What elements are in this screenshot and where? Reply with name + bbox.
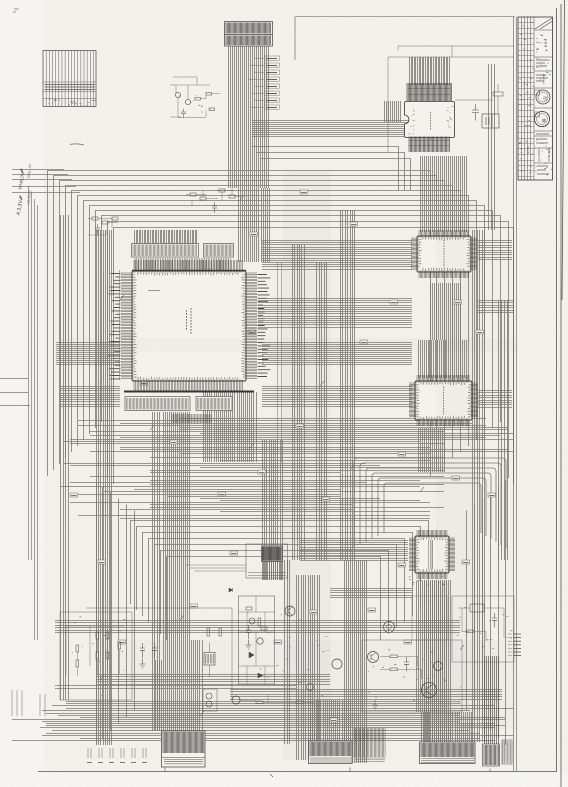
wire bus IC3 left entry: [262, 241, 412, 270]
analog section box 2: [239, 596, 275, 684]
wire bus IC4 bottom fan: [419, 428, 445, 472]
resistor R23: [390, 655, 398, 658]
resistor R27: [296, 701, 303, 704]
resistor R26: [256, 701, 263, 704]
handwritten arrows: [19, 169, 23, 201]
wire power section: [458, 608, 504, 641]
pencil smudge 2: [148, 290, 160, 292]
wire bus IC3 right exit: [478, 241, 512, 260]
resistor R21: [219, 628, 222, 636]
wire bus IC1-to-CN2 trunk: [153, 412, 160, 731]
transistor pair box: [203, 689, 217, 711]
frame right border: [557, 0, 565, 787]
IC2 body: [405, 102, 455, 138]
regulator VR1: [470, 604, 484, 612]
pin table text rows: [45, 85, 96, 90]
wire bus top cross link: [252, 121, 430, 137]
frame bottom border: [38, 771, 556, 773]
resistor R24: [390, 668, 398, 671]
capacitor C22: [492, 613, 497, 627]
CN2 left labels: [88, 748, 91, 758]
wire bus J-bars to IC1 top: [135, 258, 230, 270]
transistor Q2: [185, 99, 190, 104]
capacitor C2: [472, 104, 479, 121]
connector CN1: [225, 22, 273, 47]
audio section box 3: [362, 640, 462, 712]
IC5 small DIP: [246, 544, 288, 578]
wire bus IC3 top: [421, 156, 467, 232]
wire bus bottom band A: [12, 702, 513, 741]
IC6 QFP: [415, 536, 449, 573]
wire bus mid horizontal spread: [60, 419, 513, 519]
ground G3: [372, 700, 378, 709]
analog section box 1: [86, 608, 232, 700]
wire bus IC6 bottom exit: [417, 581, 447, 712]
transistor Q5: [422, 683, 437, 698]
diode D1: [229, 588, 233, 592]
capacitor C1: [181, 109, 186, 118]
wire bus right trunk: [473, 230, 485, 742]
wire bus into CN3: [311, 700, 351, 741]
wire bus IC1 right pin labels: [258, 275, 271, 377]
IC3 QFP: [417, 236, 471, 272]
oscillator X2: [204, 653, 215, 666]
wire bottom center row: [240, 695, 315, 703]
connector bar J4 below IC1: [196, 397, 232, 411]
wire bottom-left cluster: [66, 626, 124, 676]
capacitor C6: [212, 202, 217, 213]
wire bus IC5 fan: [264, 561, 282, 580]
wire bus CN1 vertical: [229, 46, 269, 188]
transistor Q8: [307, 684, 314, 691]
resistor R1: [195, 98, 201, 101]
bus width slash marks: [100, 135, 464, 716]
pencil smudge 3: [13, 9, 19, 12]
wire bus IC4 right: [478, 391, 512, 408]
transistor Q10: [232, 696, 240, 704]
wire left edge stubs mid: [0, 379, 30, 406]
wire audio section: [380, 656, 422, 679]
frame inner right border: [514, 17, 517, 771]
transistor array Q9: [384, 622, 395, 633]
title block stamp seal 2: [534, 111, 549, 126]
IC1 main ASIC: [132, 271, 246, 381]
resistor pack left of IC1: [92, 217, 98, 220]
scanner halftone bands: [283, 170, 331, 760]
wire left-of-IC1 cluster: [88, 219, 118, 236]
wire bus IC4 left entry upper: [56, 343, 120, 365]
connector bar J2 above IC1: [204, 244, 234, 258]
wire bus center verticals: [293, 244, 305, 560]
wire bus bottom band A2: [230, 690, 502, 700]
ground G1: [246, 640, 252, 649]
junction label tags scattered: [70, 493, 78, 497]
capacitor C5: [95, 224, 100, 235]
wire bus right of IC1 band: [258, 299, 412, 328]
wire bus between IC3 IC4: [431, 283, 461, 340]
wire bus IC6 left entry: [300, 541, 408, 561]
wire bus nested frame mid: [131, 521, 429, 605]
wire bus right of IC1 verticals: [317, 262, 327, 560]
title block diagonal slash: [535, 18, 553, 29]
wire bus IC4 left entry lower: [60, 387, 120, 407]
title block: [518, 17, 553, 180]
wire bus mid-top step lines: [252, 147, 411, 191]
wire bus center-left trunk upper: [263, 440, 283, 580]
wire bus IC6 bottom labels band: [330, 589, 412, 598]
wire bus left bottom stubs: [12, 690, 45, 716]
wire bus center trunk2: [341, 210, 355, 560]
wire bus into CN5: [422, 712, 472, 742]
connector bar J1 above IC1: [132, 244, 199, 258]
connector pin table: [43, 51, 96, 107]
resistor cluster RA: [96, 632, 99, 639]
IC2 hybrid module pin field: [407, 83, 451, 101]
wire bus nested loops below IC4: [354, 458, 506, 548]
wire top horizontal net: [295, 17, 515, 61]
transistor Q3: [285, 606, 295, 616]
wire top component cluster: [170, 77, 221, 118]
resistor pack above IC1 B: [219, 189, 225, 192]
ground G2: [140, 659, 146, 668]
wire bus IC4 top: [419, 340, 467, 378]
box2 component chain: [239, 596, 275, 684]
wire bus bottom band C: [55, 621, 460, 633]
resistor pack above IC1 A: [190, 193, 196, 196]
crystal X1: [482, 114, 499, 128]
wire bus below IC1 verticals: [204, 392, 257, 462]
wire IC2 frame box: [388, 46, 514, 152]
IC6 inner marks: [429, 540, 433, 569]
IC4 QFP: [415, 381, 472, 420]
connector CN2: [162, 731, 206, 767]
wire bus bottom band D: [96, 675, 330, 685]
resistor R20: [207, 628, 210, 636]
wire bus into CN2: [192, 640, 203, 731]
wire bus IC2 top entry: [410, 57, 450, 85]
signal label tags column: [265, 56, 280, 60]
transistor Q4: [368, 652, 379, 663]
IC2 bottom pins: [409, 137, 449, 153]
wire pair across bottom-center: [55, 686, 296, 689]
wire bus verticals into bottom connectors: [345, 560, 367, 763]
wire bus nested frame lower: [97, 481, 506, 746]
connector CN4 bundle: [354, 728, 385, 757]
signal list labels right: [513, 633, 521, 635]
wire bus into CN6: [485, 656, 499, 744]
connector CN7: [502, 740, 512, 764]
title block stamp seal 1: [536, 90, 550, 104]
transistor Q7: [332, 659, 342, 669]
IC1 bottom dark pin row: [124, 391, 254, 393]
capacitor C20: [246, 625, 251, 639]
resistor R4: [493, 92, 503, 96]
wire bus IC1 left pin labels: [108, 274, 121, 379]
pencil smudge 1: [70, 144, 84, 145]
resistor R3: [209, 108, 215, 111]
wire bus far-left entry stubs: [12, 170, 80, 193]
wire bus nested routing frame top-left: [48, 171, 431, 477]
wire bus center-bottom trunk: [297, 575, 320, 760]
connector CN6: [483, 744, 500, 766]
wire bus left trunk: [61, 215, 69, 700]
IC1 top dark pin row: [132, 270, 246, 272]
resistor R25: [466, 630, 474, 633]
capacitor C21: [404, 657, 409, 671]
transistor Q6: [434, 662, 443, 671]
connector CN3: [309, 741, 353, 764]
wire bus CN1 lower fan: [239, 188, 270, 262]
connector bar J5 hatch below IC1: [172, 414, 211, 423]
transistor Q1: [175, 92, 180, 97]
power section box 4: [452, 596, 514, 662]
wire bus above IC1: [135, 230, 197, 245]
connector CN5: [420, 742, 476, 764]
connector bar J3 below IC1: [125, 397, 190, 411]
wire stubs from label tags: [248, 58, 264, 107]
resistor R22: [258, 618, 261, 626]
resistor R2: [206, 93, 212, 96]
capacitor cluster CB: [140, 643, 157, 658]
